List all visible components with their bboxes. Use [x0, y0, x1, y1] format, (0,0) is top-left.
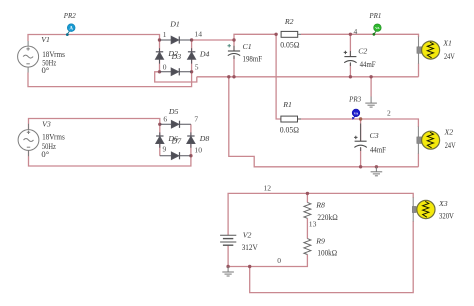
- svg-text:44mF: 44mF: [360, 59, 376, 69]
- diode D2: [156, 48, 164, 63]
- capacitor C2: [344, 51, 357, 66]
- wire C2 bottom lead: [349, 63, 351, 77]
- svg-text:C2: C2: [358, 47, 367, 56]
- wire C3 bottom lead: [360, 148, 362, 167]
- AC source V1: [18, 41, 39, 73]
- junction ground tap G2: [375, 165, 378, 168]
- diode D5: [160, 121, 191, 128]
- svg-text:24V: 24V: [444, 51, 455, 61]
- lamp X2: [417, 127, 440, 154]
- wire R2 R1 feed vertical: [276, 34, 281, 119]
- junction node 6: [158, 123, 161, 126]
- junction bottom loop: [248, 265, 251, 268]
- svg-text:4: 4: [354, 27, 358, 36]
- wire C1 top lead: [233, 40, 235, 51]
- svg-text:A: A: [69, 27, 73, 32]
- label R9: [315, 237, 337, 258]
- AC source V3: [18, 124, 39, 156]
- svg-text:0: 0: [163, 62, 167, 71]
- wire V3 top to node 6: [29, 119, 160, 131]
- ground G1: [365, 97, 377, 108]
- label X2: [444, 128, 457, 151]
- wire bridge1 left column node1-node0: [159, 40, 161, 72]
- label X3: [438, 199, 455, 221]
- label V1: [41, 35, 65, 75]
- svg-text:R2: R2: [284, 17, 294, 26]
- svg-text:0°: 0°: [42, 65, 50, 75]
- battery V2: [220, 235, 236, 245]
- resistor R2: [281, 31, 301, 37]
- svg-text:312V: 312V: [242, 242, 259, 252]
- svg-text:0°: 0°: [41, 149, 49, 159]
- svg-text:C3: C3: [370, 131, 379, 140]
- svg-text:10: 10: [194, 145, 202, 154]
- wire X2 bottom lead: [417, 154, 419, 167]
- svg-text:D8: D8: [199, 134, 210, 143]
- wire C1 bottom lead: [233, 56, 235, 77]
- junction V2 bottom ground: [226, 265, 229, 268]
- junction C1 bottom: [232, 75, 235, 78]
- label V2: [242, 231, 259, 253]
- resistor R1: [281, 116, 301, 122]
- svg-text:PR2: PR2: [63, 11, 76, 20]
- wire node14 to C1 top: [192, 34, 277, 40]
- junction ground rail x228.8: [227, 75, 230, 78]
- svg-text:V2: V2: [243, 231, 252, 240]
- svg-text:D7: D7: [171, 137, 183, 146]
- diode D7: [160, 152, 191, 159]
- wire ground tap G1: [370, 77, 372, 97]
- probe PR1: [373, 24, 382, 36]
- svg-text:D1: D1: [169, 19, 180, 28]
- wire ground drop x228.8: [229, 77, 361, 167]
- svg-text:220kΩ: 220kΩ: [317, 212, 337, 222]
- wire V1 top to node 1: [28, 35, 160, 42]
- junction node 14: [190, 38, 193, 41]
- svg-text:C1: C1: [243, 42, 252, 51]
- label V3: [41, 119, 65, 159]
- resistor R8: [304, 202, 311, 218]
- wire node 0 loop to ground rail: [155, 72, 197, 82]
- capacitor C1: [228, 44, 241, 59]
- junction C3 bottom: [359, 165, 362, 168]
- wire bridge1 right column node14-node5: [191, 40, 193, 72]
- svg-text:V1: V1: [41, 35, 50, 44]
- svg-text:2: 2: [387, 108, 391, 117]
- svg-text:9: 9: [163, 144, 167, 153]
- wire V2 top rail node 12: [228, 193, 413, 235]
- svg-text:R8: R8: [315, 200, 325, 209]
- wire V1 bottom to node 5: [28, 72, 192, 87]
- wire bridge2 left column node6-node9: [159, 124, 161, 155]
- svg-text:VA: VA: [354, 111, 359, 115]
- label X1: [442, 39, 455, 61]
- junction ground tap G1: [369, 75, 372, 78]
- svg-text:7: 7: [194, 114, 198, 123]
- svg-text:X1: X1: [442, 39, 452, 48]
- junction R2 left: [274, 33, 277, 36]
- svg-text:320V: 320V: [439, 211, 455, 221]
- junction node 10: [189, 154, 192, 157]
- wire X1 bottom lead: [418, 64, 420, 77]
- ground G2: [371, 167, 383, 176]
- ground G3: [222, 267, 234, 277]
- wire X3 bottom to bottom loop: [250, 221, 414, 293]
- svg-text:100kΩ: 100kΩ: [317, 247, 337, 257]
- label C3: [370, 131, 387, 155]
- wire C3 top lead: [360, 119, 362, 141]
- svg-text:R1: R1: [282, 100, 292, 109]
- junction C2 bottom: [349, 75, 352, 78]
- svg-text:5: 5: [195, 62, 199, 71]
- wire R8 top lead: [306, 193, 308, 202]
- svg-text:44mF: 44mF: [370, 145, 386, 155]
- svg-text:PR1: PR1: [369, 11, 382, 20]
- svg-text:12: 12: [264, 184, 272, 193]
- probe PR2: [66, 24, 75, 36]
- diode D1: [160, 36, 192, 43]
- svg-text:14: 14: [194, 30, 202, 39]
- junction C3 top node 2: [359, 117, 362, 120]
- svg-text:18Vrms: 18Vrms: [42, 131, 65, 141]
- svg-text:24V: 24V: [445, 140, 456, 150]
- junction node 0: [158, 70, 161, 73]
- label R2: [280, 17, 299, 50]
- wire R8 R9 junction node 13: [306, 218, 308, 238]
- svg-text:VA: VA: [375, 26, 380, 30]
- junction node 1: [158, 38, 161, 41]
- svg-text:1: 1: [163, 30, 167, 39]
- junction C2 top: [349, 33, 352, 36]
- junction R8 top node 12: [306, 192, 309, 195]
- lamp X3: [412, 198, 435, 222]
- diode D4: [188, 48, 196, 63]
- label C2: [358, 47, 376, 70]
- label R8: [315, 200, 337, 222]
- wire V2 bottom rail node 0: [228, 245, 307, 266]
- junction node 5: [190, 70, 193, 73]
- wire V3 bottom to node 10: [29, 151, 191, 167]
- svg-text:D3: D3: [171, 52, 182, 61]
- svg-text:X2: X2: [444, 128, 454, 137]
- label C1: [243, 42, 263, 64]
- wire R1 to node 2 rail: [298, 119, 419, 127]
- wire ground rail top section: [197, 76, 419, 78]
- probe PR3: [352, 109, 360, 120]
- svg-text:PR3: PR3: [348, 95, 361, 104]
- svg-text:13: 13: [309, 219, 317, 228]
- svg-text:V3: V3: [42, 119, 51, 128]
- svg-text:R9: R9: [315, 237, 325, 246]
- svg-text:0.05Ω: 0.05Ω: [280, 39, 299, 49]
- label R1: [280, 100, 299, 135]
- wire C2 top lead: [349, 34, 351, 56]
- wire X2 bottom rail: [361, 166, 419, 168]
- resistor R9: [304, 239, 311, 255]
- svg-text:0.05Ω: 0.05Ω: [280, 125, 299, 135]
- svg-text:6: 6: [163, 115, 167, 124]
- svg-text:0: 0: [277, 256, 281, 265]
- svg-text:198mF: 198mF: [243, 53, 263, 63]
- diode D3: [160, 68, 192, 75]
- svg-text:D4: D4: [199, 50, 210, 59]
- wire top rail R2 to X1: [301, 34, 419, 37]
- lamp X1: [417, 37, 440, 64]
- diode D6: [156, 132, 164, 147]
- svg-text:X3: X3: [438, 199, 448, 208]
- wire bridge2 right column node7-node10: [190, 124, 192, 155]
- svg-text:D5: D5: [168, 107, 179, 116]
- diode D8: [187, 132, 195, 147]
- junction C1 top: [232, 38, 235, 41]
- capacitor C3: [354, 124, 367, 152]
